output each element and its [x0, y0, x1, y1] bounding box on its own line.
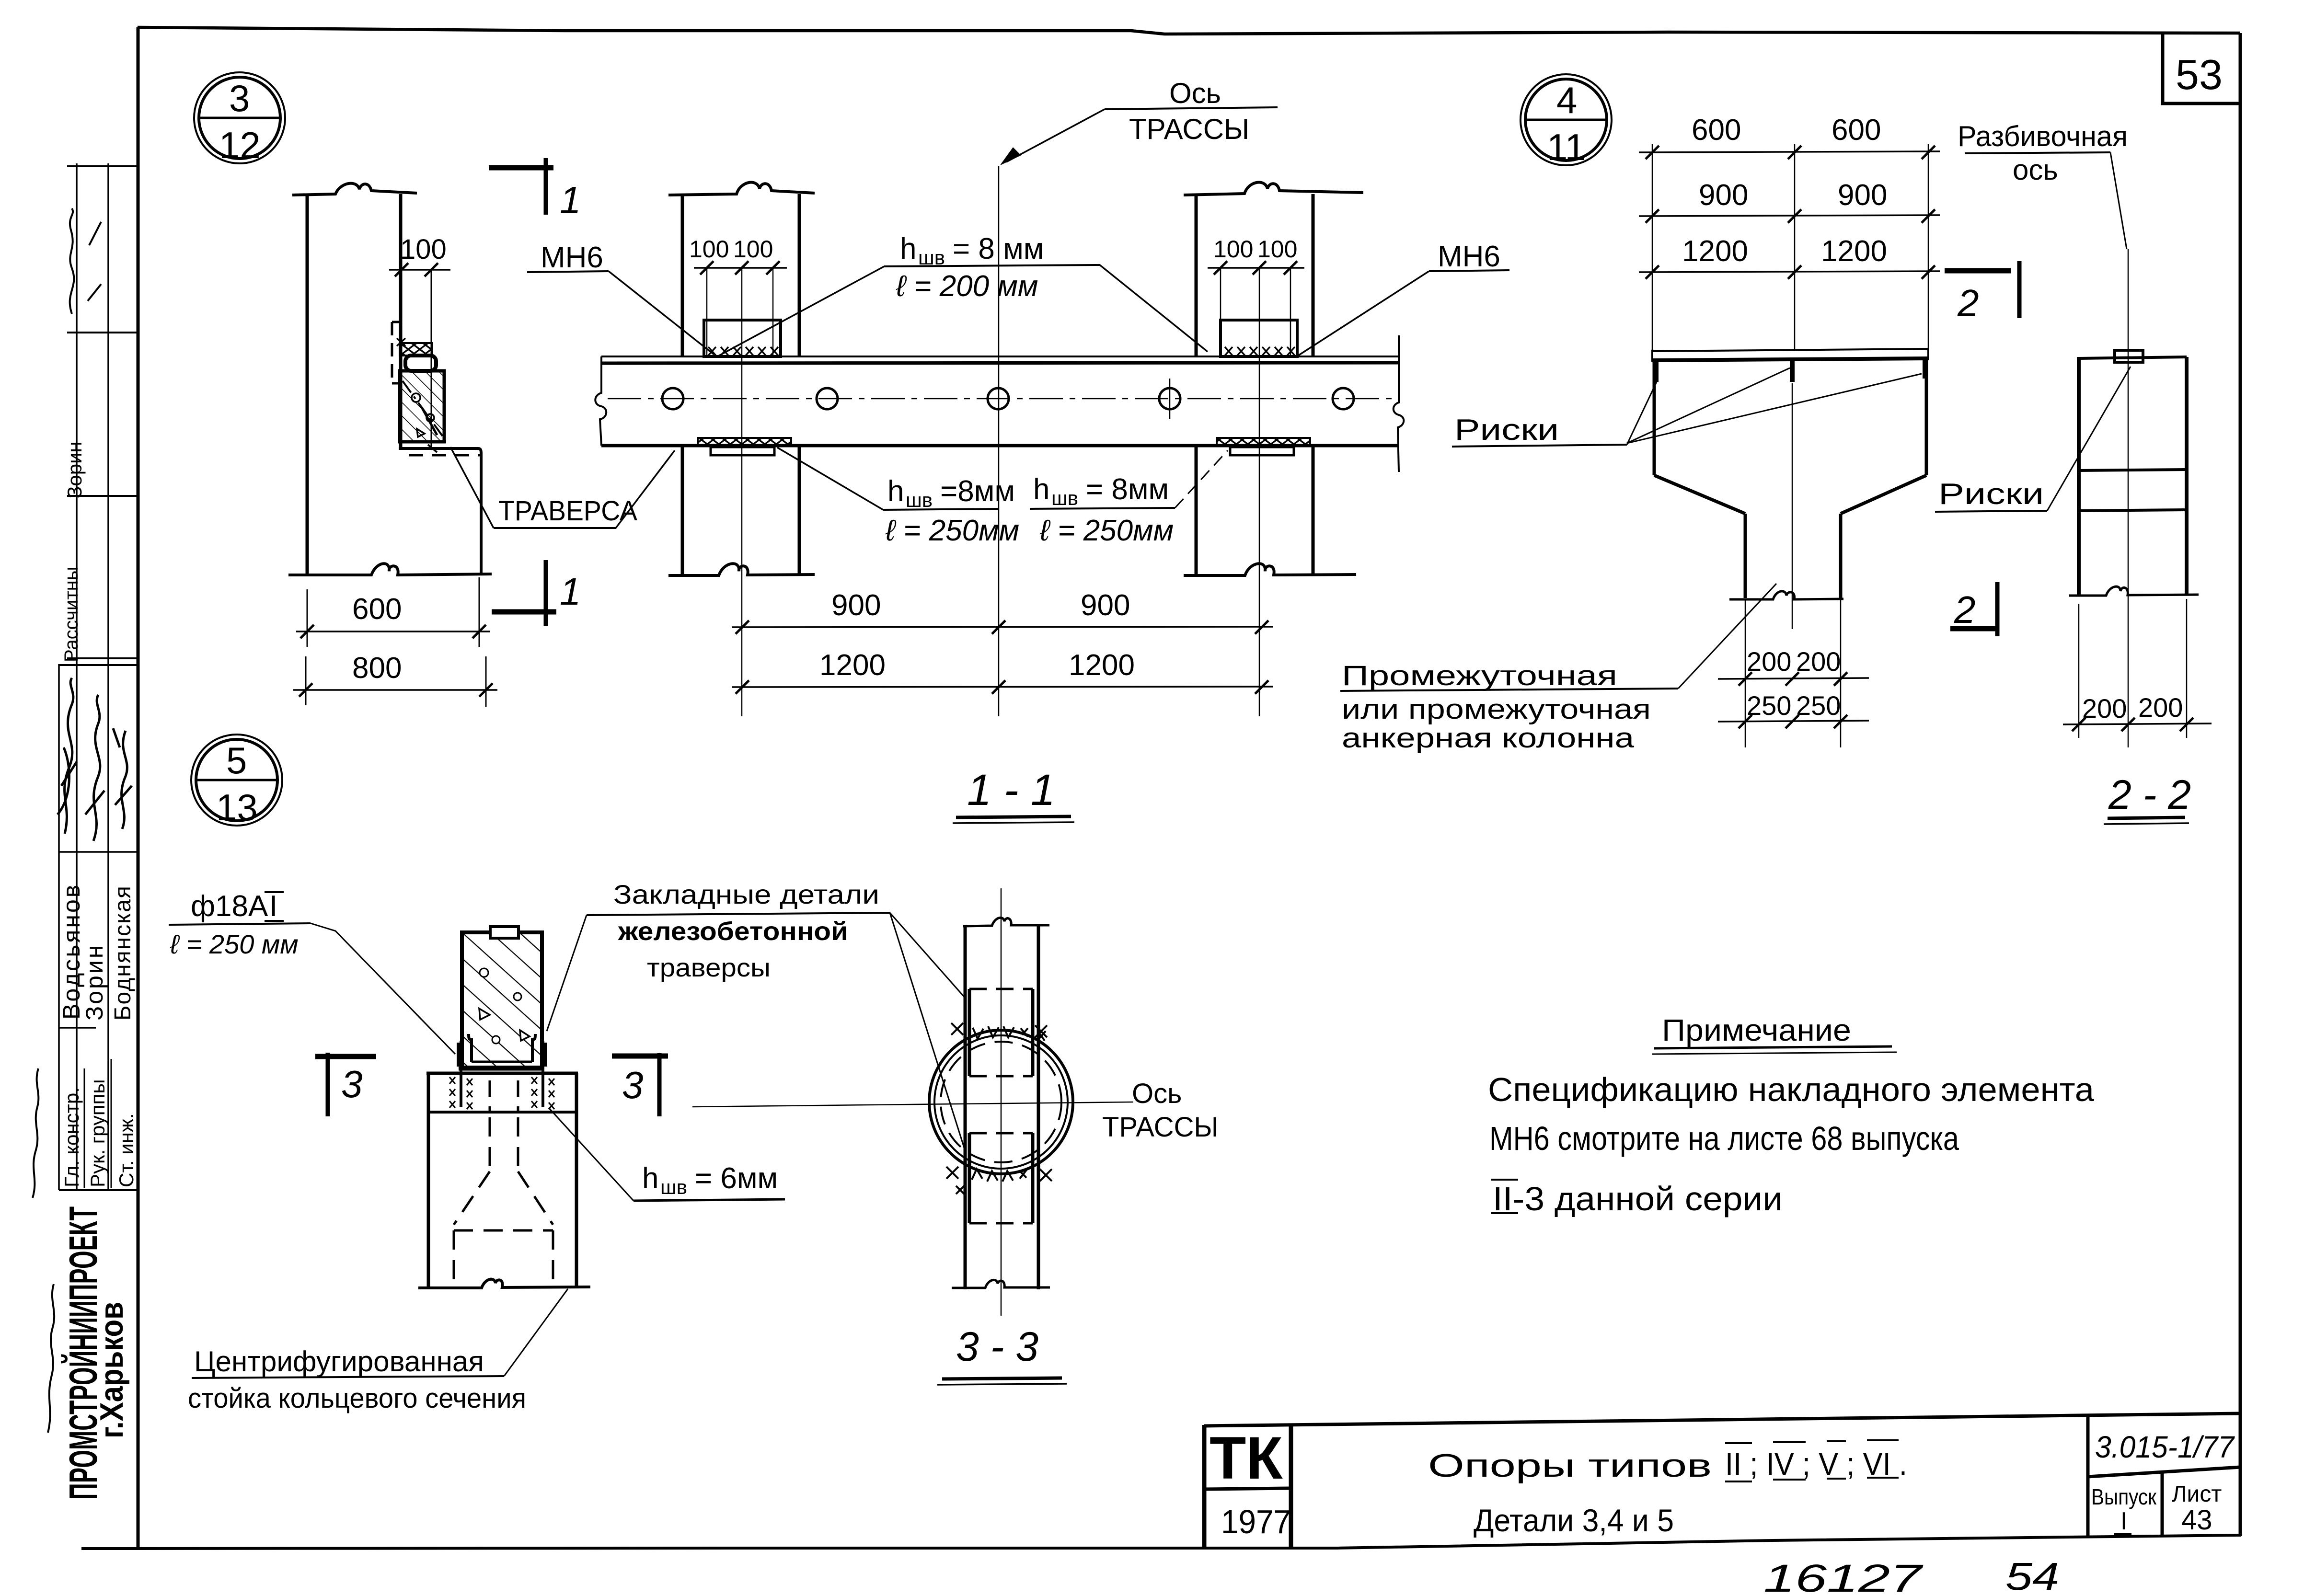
section mark 3 right horizontal	[612, 1054, 668, 1059]
label ф18АI underline	[169, 923, 311, 925]
svg-text:250: 250	[1796, 690, 1841, 721]
dim1200 tick a	[1646, 265, 1659, 279]
title right divider 2	[2161, 1472, 2164, 1536]
dim 800 witness left	[305, 656, 307, 705]
right column lower left edge	[1195, 446, 1198, 575]
3-3 centerline vertical	[1001, 888, 1002, 1316]
U shoe left inner wall	[469, 1034, 472, 1062]
bracket right edge	[480, 453, 483, 574]
heading 3-3 underline thin	[937, 1384, 1067, 1385]
dim 900 tick b	[992, 620, 1005, 634]
dim200 tick c	[1834, 672, 1847, 686]
aggregate dot 2	[426, 414, 434, 422]
svg-text:II ; IV ; V ; VI .: II ; IV ; V ; VI .	[1725, 1446, 1907, 1481]
label ф18АI underbar	[265, 920, 284, 922]
dim200 tick a	[1739, 672, 1752, 686]
hole 4	[1159, 388, 1180, 409]
right column centerline	[1259, 268, 1260, 716]
svg-text:54: 54	[2005, 1555, 2059, 1596]
svg-text:шв: шв	[906, 489, 933, 511]
column top edge	[426, 1072, 578, 1075]
title right divider 1	[2086, 1415, 2090, 1538]
T column left side	[1653, 362, 1656, 475]
U shoe bottom	[459, 1067, 543, 1071]
dim 600 line	[296, 631, 490, 632]
svg-text:= 8 мм: = 8 мм	[953, 232, 1044, 265]
svg-text:ТРАВЕРСА: ТРАВЕРСА	[498, 495, 637, 527]
label Закладные underline	[587, 913, 890, 915]
dim 800 tick b	[479, 683, 493, 697]
heading 2-2 underline thick	[2108, 817, 2185, 818]
svg-text:11: 11	[1547, 126, 1586, 168]
svg-text:2: 2	[1957, 282, 1979, 324]
dim600 tick b	[1788, 146, 1801, 159]
witness line left	[1652, 144, 1653, 357]
svg-text:200: 200	[2138, 692, 2183, 723]
T column cap left edge	[1651, 350, 1653, 362]
left column top break line	[668, 183, 815, 195]
dim 800 tick a	[299, 683, 312, 697]
svg-text:II-3 данной серии: II-3 данной серии	[1493, 1180, 1783, 1217]
dim 600 witness left	[307, 589, 308, 647]
detail marker 5/13 outer circle	[191, 735, 282, 826]
left dim tick b	[735, 261, 749, 275]
right dim tick c	[1284, 261, 1297, 275]
dim 800 line	[293, 689, 497, 691]
detail marker divider	[196, 779, 277, 781]
dim 900 900 line	[1639, 215, 1940, 216]
svg-text:900: 900	[1081, 589, 1130, 622]
right lower plate	[1230, 447, 1294, 455]
traverse bottom plate	[399, 442, 481, 453]
svg-text:железобетонной: железобетонной	[618, 917, 848, 946]
3-3 centerline horizontal	[692, 1102, 1133, 1107]
section mark 3 left vertical	[326, 1053, 330, 1116]
cavity collar stub left	[489, 1080, 491, 1111]
underline of Рук. группы	[111, 1059, 112, 1188]
section mark 2 lower horizontal	[1950, 626, 1999, 632]
stem dim witness right	[1840, 599, 1842, 747]
svg-text:Выпуск: Выпуск	[2091, 1484, 2157, 1509]
svg-text:1: 1	[560, 179, 581, 221]
detail marker 5/13 inner circle	[196, 739, 277, 821]
traverse label leader right	[616, 450, 675, 528]
svg-text:200: 200	[1747, 646, 1791, 677]
svg-text:250: 250	[1747, 690, 1791, 721]
signature scribble row3	[113, 728, 132, 829]
svg-text:Рук. группы: Рук. группы	[86, 1079, 109, 1187]
stamp short divider y2145	[59, 1027, 96, 1029]
T column left taper	[1654, 475, 1745, 514]
U shoe right outer wall	[543, 1043, 547, 1067]
TK box left edge	[1202, 1425, 1207, 1547]
svg-text:100: 100	[1257, 236, 1297, 263]
left dim tick c	[766, 261, 780, 275]
dim1200 tick c	[1922, 265, 1935, 279]
svg-text:= 6мм: = 6мм	[695, 1162, 778, 1195]
svg-text:2 - 2: 2 - 2	[2108, 772, 2191, 818]
left column upper left edge	[681, 194, 684, 356]
MH6 hidden plate dashed outline	[392, 322, 402, 383]
dim 100 tick a	[395, 263, 408, 276]
hole 4 center tick	[1169, 379, 1171, 419]
section mark 3 left horizontal	[315, 1054, 376, 1059]
left column lower left edge	[681, 446, 684, 575]
roman overbars	[1725, 1440, 1899, 1443]
sheet border bottom	[81, 1535, 2241, 1549]
3-3 ring second circle	[934, 1035, 1068, 1169]
column collar line	[428, 1111, 576, 1114]
svg-text:Разбивочная: Разбивочная	[1958, 120, 2128, 152]
left column centerline	[741, 268, 743, 716]
2-2 column left side	[2077, 357, 2081, 595]
2-2 riski line lower	[2079, 510, 2187, 511]
cavity dashed wall left	[453, 1230, 455, 1286]
sheet border left	[137, 27, 140, 1548]
dim600 tick a	[1646, 146, 1659, 159]
detail marker divider	[199, 117, 280, 119]
dim 600 600 line	[1639, 151, 1940, 152]
weld mark bottom x right	[1040, 1169, 1052, 1181]
svg-text:ℓ = 250 мм: ℓ = 250 мм	[170, 929, 299, 959]
T column centerline	[1792, 383, 1793, 629]
right dim witness a	[1220, 268, 1221, 356]
T column right taper	[1841, 475, 1926, 514]
svg-text:53: 53	[2176, 51, 2223, 98]
faint ministry scribble line1	[48, 1284, 54, 1433]
svg-text:900: 900	[1838, 179, 1887, 212]
signature scribble row2	[85, 695, 104, 841]
weld cross mark	[397, 338, 405, 346]
dim900 tick c	[1922, 209, 1935, 223]
2-2 dim tick a	[2072, 718, 2085, 731]
dim600 tick c	[1922, 146, 1935, 159]
weld label top leader left	[717, 266, 884, 356]
note roman II overbar	[1491, 1179, 1518, 1181]
svg-text:шв: шв	[1051, 487, 1078, 509]
witness line center	[1794, 144, 1796, 351]
weld label A leader	[777, 448, 883, 510]
aggregate triangle d5-2	[520, 1030, 530, 1041]
dim 600 tick a	[300, 625, 314, 638]
traverse bottom line	[601, 444, 1399, 448]
weld label B leader dashed	[1175, 450, 1228, 508]
heading 2-2 underline thin	[2104, 823, 2189, 824]
svg-text:Риски: Риски	[1454, 413, 1559, 447]
svg-text:1200: 1200	[1821, 235, 1887, 268]
3-3 column right line	[1037, 926, 1040, 1289]
stamp row double line y1386	[59, 664, 138, 666]
svg-text:200: 200	[2082, 693, 2127, 723]
column left edge	[306, 194, 309, 575]
svg-text:1 - 1: 1 - 1	[967, 766, 1055, 815]
dim 600 witness right	[479, 577, 480, 647]
label Риски right leader	[2047, 367, 2131, 511]
label Закладные leader right lower	[890, 913, 966, 1154]
stamp row line y341	[67, 165, 138, 167]
right dim tick b	[1253, 261, 1266, 275]
sheet border right	[2239, 33, 2242, 1536]
dim 100 witness line	[431, 270, 432, 448]
label MH6 right leader	[1297, 271, 1429, 356]
sheet border top	[138, 27, 2240, 34]
left column upper right edge	[798, 194, 801, 356]
svg-text:Закладные детали: Закладные детали	[613, 879, 879, 909]
right dim tick a	[1214, 261, 1227, 275]
column right edge	[399, 194, 403, 448]
svg-text:МН6 смотрите на листе 68 выпу: МН6 смотрите на листе 68 выпуска	[1489, 1120, 1959, 1157]
svg-text:I: I	[269, 890, 277, 923]
svg-text:1: 1	[560, 570, 581, 613]
label MH6 left leader	[609, 271, 714, 355]
svg-text:ТРАССЫ: ТРАССЫ	[1102, 1112, 1219, 1143]
hole 3	[988, 388, 1009, 409]
2-2 dim witness right	[2186, 599, 2188, 738]
heading 3-3 underline thick	[942, 1378, 1062, 1379]
label Промежуточная underline	[1340, 689, 1678, 691]
left lower plate weld bar	[698, 438, 791, 446]
dim 1200 1200 line	[732, 687, 1273, 687]
right lower plate weld bar	[1217, 438, 1310, 446]
T column cap bottom thick	[1652, 358, 1928, 360]
section mark 2 upper vertical	[2017, 261, 2022, 318]
label Ось трассы leader	[1006, 109, 1105, 162]
hole 2	[817, 388, 838, 409]
3-3 column left line	[964, 926, 967, 1289]
3-3 lower plate	[969, 1133, 1033, 1223]
svg-text:Примечание: Примечание	[1662, 1013, 1851, 1047]
title right divider horizontal	[2088, 1467, 2240, 1477]
column bottom break line	[418, 1279, 590, 1288]
stamp table vertical line x226	[107, 163, 109, 1190]
slash mark 1	[89, 222, 101, 245]
T column stem bottom break	[1729, 591, 1843, 599]
svg-text:Риски: Риски	[1938, 478, 2044, 511]
svg-text:13: 13	[216, 786, 258, 828]
riska tick left	[1654, 362, 1659, 382]
2-2 centerline	[2128, 249, 2129, 747]
weld marks top arc	[973, 1026, 1046, 1041]
riska tick right	[1923, 360, 1927, 379]
svg-text:Зорин: Зорин	[63, 441, 86, 498]
svg-text:43: 43	[2181, 1504, 2212, 1536]
svg-text:ℓ = 200 мм: ℓ = 200 мм	[896, 270, 1038, 303]
cavity dashed horizontal	[454, 1229, 553, 1232]
weld label B underline	[1030, 508, 1175, 509]
rod weld hatch left b	[467, 1079, 472, 1085]
svg-text:ТК: ТК	[1210, 1425, 1283, 1492]
TK box divider	[1204, 1488, 1291, 1489]
label hшв=6мм leader	[549, 1108, 634, 1201]
label Ось трассы arrowhead	[1001, 148, 1021, 165]
right MH6 plate on traverse	[1221, 320, 1297, 356]
dim 1200 tick c	[1255, 680, 1268, 694]
svg-text:Гл. констр.: Гл. констр.	[60, 1087, 83, 1187]
aggregate triangle d5-1	[479, 1009, 490, 1020]
I underline	[2114, 1533, 2131, 1535]
svg-text:= 8мм: = 8мм	[1086, 473, 1169, 506]
svg-text:5: 5	[226, 739, 247, 781]
weld label top leader right	[1100, 265, 1208, 352]
svg-text:ось: ось	[2013, 154, 2058, 186]
dim200 tick b	[1786, 672, 1799, 686]
svg-text:МН6: МН6	[1438, 240, 1500, 273]
cavity flare left	[454, 1171, 490, 1225]
section mark 2 lower vertical	[1995, 582, 2000, 636]
concrete traverse section hatched	[462, 932, 542, 1068]
svg-text:1977: 1977	[1221, 1503, 1291, 1540]
label Разбивочная underline	[1965, 152, 2110, 153]
cavity dashed vertical right	[517, 1117, 519, 1171]
dim 1200 1200 line	[1639, 271, 1940, 272]
svg-text:Опоры типов: Опоры типов	[1428, 1447, 1712, 1484]
label Риски right underline	[1935, 511, 2047, 512]
slash mark 2	[88, 284, 101, 301]
traverse label underline	[494, 527, 616, 529]
T column stem left	[1744, 514, 1747, 598]
stamp row line y694	[67, 332, 138, 333]
svg-text:Центрифугированная: Центрифугированная	[194, 1345, 484, 1378]
svg-text:2: 2	[1954, 588, 1976, 631]
weld mark top x right	[1035, 1025, 1047, 1037]
2-2 bottom break line	[2069, 586, 2199, 596]
stamp row double line y1374	[67, 657, 138, 659]
svg-text:Детали 3,4 и 5: Детали 3,4 и 5	[1474, 1503, 1674, 1538]
weld mark top x left	[951, 1023, 963, 1035]
svg-text:200: 200	[1796, 646, 1841, 677]
cavity flare right	[518, 1171, 553, 1225]
label column leader	[1678, 584, 1776, 689]
2-2 column right side	[2185, 357, 2189, 595]
rod weld hatch right a	[531, 1077, 537, 1084]
traverse left end with break	[595, 356, 606, 446]
weld marks bottom arc	[956, 1169, 1026, 1194]
svg-text:ℓ = 250мм: ℓ = 250мм	[1039, 514, 1174, 547]
top mark plate	[490, 927, 518, 938]
heading underline thin	[1652, 1052, 1897, 1054]
left dim witness c	[772, 268, 774, 356]
anchor rod right	[541, 1041, 544, 1107]
label hшв=6мм underline	[634, 1199, 785, 1201]
aggregate dot d5-1	[480, 968, 488, 977]
aggregate dot d5-3	[492, 1036, 500, 1044]
dim 200 200 line	[1718, 678, 1869, 679]
sheet number box	[2163, 34, 2240, 103]
svg-text:ТРАССЫ: ТРАССЫ	[1129, 113, 1249, 145]
stem dim witness left	[1745, 599, 1746, 747]
label MH6 left underline	[527, 271, 609, 272]
svg-text:900: 900	[1699, 179, 1748, 212]
svg-text:анкерная колонна: анкерная колонна	[1342, 723, 1635, 754]
note roman II underbar	[1491, 1212, 1518, 1214]
2-2 dim tick c	[2180, 718, 2193, 731]
svg-text:h: h	[900, 232, 916, 265]
aggregate triangle	[417, 429, 425, 437]
2-2 axis plate on top	[2115, 350, 2143, 362]
T column cap right edge	[1927, 348, 1929, 360]
3-3 ring outer circle	[929, 1030, 1073, 1174]
weld label top underline	[884, 265, 1100, 266]
3-3 upper plate dashed bottom	[969, 1075, 1033, 1078]
detail marker divider	[1525, 119, 1607, 121]
hole 1	[662, 388, 683, 409]
right MH6 plate welds	[1225, 347, 1233, 356]
3-3 upper plate	[969, 989, 1033, 1076]
svg-text:Ось: Ось	[1132, 1078, 1182, 1109]
2-2 column top edge	[2079, 357, 2187, 358]
column outline	[428, 1073, 576, 1288]
signature scribble row1	[58, 678, 77, 834]
right column bottom break line	[1184, 563, 1356, 575]
svg-text:I: I	[2120, 1507, 2127, 1535]
section mark 1 lower horizontal	[492, 609, 556, 615]
aggregate dot 1	[412, 393, 420, 402]
roman underbars	[1725, 1478, 1899, 1481]
dim900 tick a	[1646, 209, 1659, 223]
svg-text:1200: 1200	[1682, 235, 1748, 268]
svg-text:Спецификацию накладного элемен: Спецификацию накладного элемента	[1488, 1071, 2094, 1108]
column bottom break line	[288, 563, 492, 575]
3-3 ring inner dashed circle	[941, 1042, 1061, 1162]
T column cap top thin	[1652, 349, 1928, 351]
svg-text:г.Харьков: г.Харьков	[93, 1302, 129, 1438]
svg-text:100: 100	[733, 236, 773, 263]
right column lower right edge	[1312, 446, 1315, 575]
hole 5	[1333, 388, 1354, 409]
dim 100 tick b	[425, 263, 438, 276]
svg-text:МН6: МН6	[541, 241, 603, 274]
left dim tick a	[700, 261, 714, 275]
rod weld hatch right b	[549, 1079, 554, 1085]
svg-text:или промежуточная: или промежуточная	[1342, 694, 1651, 725]
section mark 1 upper vertical	[544, 158, 548, 215]
traverse top line thick	[601, 363, 1399, 363]
svg-text:100: 100	[1213, 236, 1253, 263]
left MH6 plate on traverse	[704, 320, 781, 356]
label Закладные leader right upper	[890, 913, 966, 999]
svg-text:4: 4	[1556, 79, 1577, 121]
dim 900 900 line	[732, 627, 1273, 627]
dim 900 tick a	[736, 620, 749, 634]
dim 1200 tick b	[992, 680, 1005, 694]
svg-text:ℓ = 250мм: ℓ = 250мм	[885, 514, 1019, 547]
dim 900 tick c	[1255, 620, 1268, 634]
traverse label leader left	[450, 447, 494, 528]
faint ministry scribble line2	[33, 1068, 38, 1198]
svg-text:600: 600	[1692, 114, 1741, 147]
traverse right end with break	[1394, 335, 1404, 472]
left column bottom break line	[668, 563, 815, 575]
section mark 3 right vertical	[657, 1053, 662, 1116]
left column lower right edge	[798, 446, 801, 575]
svg-text:3 - 3: 3 - 3	[956, 1324, 1038, 1370]
right column upper left edge	[1195, 194, 1198, 356]
U shoe left outer wall	[457, 1043, 461, 1067]
svg-text:шв: шв	[660, 1176, 687, 1198]
dim 600 tick b	[472, 625, 486, 638]
3-3 lower plate dashed top	[969, 1132, 1033, 1135]
dim900 tick b	[1788, 209, 1801, 223]
Риски leader to right tick	[1627, 374, 1922, 443]
dim 800 witness right	[485, 656, 487, 707]
rod weld hatch left a	[449, 1077, 455, 1084]
heading 1-1 underline thin	[953, 822, 1074, 823]
Риски leader to center tick	[1627, 368, 1790, 443]
left lower plate	[711, 447, 774, 455]
traverse top plate weld strip	[400, 343, 432, 356]
svg-text:3.015-1/77: 3.015-1/77	[2095, 1430, 2235, 1464]
label MH6 right underline	[1429, 270, 1509, 271]
